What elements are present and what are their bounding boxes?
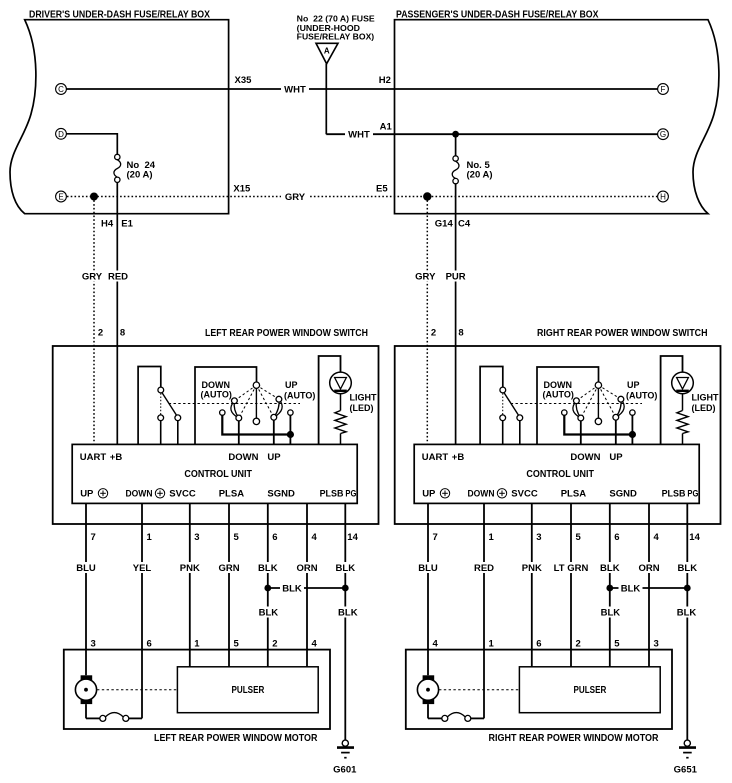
svg-text:6: 6 [272,532,277,543]
rocker common contact (left) [253,382,259,388]
svg-text:3: 3 [91,639,96,650]
switch S1 dotted throw (left) [160,393,162,414]
motor M (left) [81,675,93,683]
down-auto lever bottom contact (left) [236,415,242,421]
svg-text:F: F [661,85,666,94]
label GRN (wire PLSA, left) [219,562,240,573]
svg-text:+B: +B [110,452,123,463]
ground G601 symbol [337,746,354,749]
svg-text:3: 3 [194,532,199,543]
svg-text:PG: PG [687,489,698,500]
label WHT on A1 wire [345,129,373,140]
resistor (left) [335,411,346,434]
label BLK on link (left) [280,583,304,594]
rocker bus wire (right) [564,415,632,434]
label BLK below PG junction (right) [675,607,699,618]
switch S1 lever (right) [504,393,519,416]
wire X35/H2 WHT (C to F) [66,88,657,90]
wire UP BLU (left) [85,503,87,675]
rocker common contact (right) [595,382,601,388]
svg-text:1: 1 [489,639,495,650]
svg-text:GRY: GRY [285,192,306,203]
wire X15/E5 GRY dotted (E to H) [67,196,657,198]
svg-text:X35: X35 [235,75,253,86]
wire H4 GRY dotted (to UART pin 2, left) [93,197,95,445]
junction SGND/link (left) [264,585,271,592]
motor brush loop (left) [85,704,87,718]
svg-text:CONTROL UNIT: CONTROL UNIT [526,469,594,480]
switch S1 contact a (right) [500,415,506,421]
junction PG/link (left) [342,585,349,592]
svg-text:BLK: BLK [259,608,279,619]
up-auto lever arc (right) [616,399,624,417]
fuse No. 5 [455,134,457,156]
switch S1 common contact (left) [158,387,164,393]
junction bus (left) [287,431,294,438]
wire UP to control unit (left) [273,420,275,444]
control unit box (left) [72,444,357,503]
svg-text:G14: G14 [435,219,454,230]
label PNK (wire SVCC, right) [522,562,543,573]
svg-text:UP: UP [285,380,298,390]
svg-text:SGND: SGND [267,489,295,500]
svg-text:UP: UP [267,452,281,463]
dashed link motor to pulser (right) [439,689,519,691]
LED frame wire (left) [319,356,341,444]
ground link wire BLK (right) [610,587,688,589]
svg-text:BLK: BLK [600,563,620,574]
svg-text:WHT: WHT [348,130,370,141]
wire resistor to control unit (left) [340,434,342,445]
svg-text:LEFT REAR POWER WINDOW SWITCH: LEFT REAR POWER WINDOW SWITCH [205,328,368,339]
left rear power window switch box [53,346,379,524]
svg-text:LEFT REAR POWER WINDOW MOTOR: LEFT REAR POWER WINDOW MOTOR [154,733,318,744]
svg-text:LIGHT: LIGHT [350,393,377,403]
wire SGND BLK (right) [609,503,611,666]
svg-text:RIGHT REAR POWER WINDOW SWITCH: RIGHT REAR POWER WINDOW SWITCH [537,328,708,339]
svg-text:3: 3 [654,639,659,650]
svg-text:A1: A1 [380,122,393,133]
svg-text:DOWN: DOWN [544,380,573,390]
svg-text:G651: G651 [674,765,698,776]
label PUR (right drop) [442,271,469,282]
svg-text:WHT: WHT [284,85,306,96]
svg-text:BLK: BLK [258,563,278,574]
junction on E wire (driver H4 tap) [90,193,98,201]
svg-text:(LED): (LED) [350,403,374,413]
svg-text:GRY: GRY [415,272,436,283]
svg-text:1: 1 [489,532,495,543]
svg-text:7: 7 [433,532,438,543]
rocker dashed throw rays (left) [234,385,256,401]
connector F [658,84,669,95]
up-auto lever top contact (right) [618,396,624,402]
svg-text:E5: E5 [376,184,388,195]
ground link wire BLK (left) [268,587,346,589]
svg-text:7: 7 [91,532,96,543]
svg-text:UP: UP [80,489,94,500]
up contact terminal (right) [630,410,635,415]
switch S1 lever (left) [162,393,177,416]
passenger's under-dash fuse/relay box outline [395,20,719,214]
svg-text:ORN: ORN [638,563,659,574]
wire PG BLK (right) [686,503,688,740]
wire A1 WHT (to G) [326,133,657,135]
svg-text:X15: X15 [233,184,251,195]
fuse symbol A (triangle) [316,43,338,64]
wire UP BLU (right) [427,503,429,675]
switch S1 frame wire (right) [480,367,503,445]
label BLK (wire SGND, left) [258,562,279,573]
rocker frame wire (right) [537,367,599,444]
label RED (wire DOWN, right) [474,562,495,573]
svg-text:DOWN: DOWN [468,489,495,500]
svg-text:6: 6 [614,532,619,543]
svg-text:1: 1 [147,532,153,543]
motor brush loop (right) [427,704,429,718]
svg-text:6: 6 [536,639,541,650]
label GRY on X15 wire [281,191,309,202]
rocker neutral contact (left) [253,418,259,424]
right rear power window switch box [395,346,721,524]
svg-text:LT GRN: LT GRN [554,563,589,574]
wire PLSA LT GRN (right) [570,503,572,666]
svg-text:PG: PG [345,489,356,500]
junction SGND/link (right) [606,585,613,592]
wire PLSB ORN (left) [306,503,308,666]
svg-text:G: G [660,130,666,139]
brush contact b (right) [465,715,471,721]
svg-text:2: 2 [431,328,436,339]
label BLK (wire PG, left) [335,562,356,573]
svg-text:RED: RED [474,563,494,574]
svg-text:(AUTO): (AUTO) [201,390,232,400]
rocker neutral stem (right) [597,388,599,418]
svg-text:8: 8 [120,328,125,339]
up-auto lever bottom contact (left) [271,414,277,420]
svg-text:PLSA: PLSA [561,489,586,500]
svg-text:5: 5 [234,639,240,650]
down contact terminal (left) [220,410,225,415]
svg-text:DRIVER'S UNDER-DASH FUSE/RELAY: DRIVER'S UNDER-DASH FUSE/RELAY BOX [29,10,210,21]
label BLK below SGND junction (left) [256,607,280,618]
dashed link motor to pulser (left) [97,689,177,691]
svg-text:RED: RED [108,272,128,283]
up-auto lever top contact (left) [276,396,282,402]
label ORN (wire PLSB, left) [297,562,318,573]
wire C4 PUR (fuse No. 5 to +B pin 8, right) [455,184,457,445]
svg-text:5: 5 [234,532,240,543]
wire UP to control unit (right) [615,420,617,444]
svg-text:2: 2 [98,328,103,339]
svg-text:C: C [58,85,64,94]
label YEL (wire DOWN, left) [132,562,153,573]
switch S1 frame wire (left) [138,367,161,445]
down contact terminal (right) [562,410,567,415]
svg-text:BLK: BLK [621,584,641,595]
LED D1 (right) [672,372,694,394]
wire from fuse A down [325,64,327,134]
LED D1 (left) [330,372,352,394]
svg-text:BLU: BLU [76,563,96,574]
label BLK on link (right) [619,583,643,594]
svg-text:1: 1 [194,639,200,650]
down-auto lever top contact (left) [232,398,238,404]
svg-text:BLU: BLU [418,563,438,574]
svg-text:PUR: PUR [446,272,466,283]
resistor (right) [677,411,688,434]
label BLU (wire UP, right) [418,562,439,573]
wire DOWN RED (right) [483,503,485,718]
label BLK below PG junction (left) [336,607,360,618]
svg-text:YEL: YEL [133,563,152,574]
svg-text:BLK: BLK [282,584,302,595]
svg-text:4: 4 [312,639,318,650]
label BLU (wire UP, left) [76,562,97,573]
svg-text:PNK: PNK [522,563,542,574]
left rear power window motor box [64,650,330,729]
wire S1 contact b to control unit (right) [519,421,521,445]
down-auto lever arc (right) [573,401,581,418]
svg-text:SGND: SGND [609,489,637,500]
svg-text:H: H [660,193,666,202]
brush contact b (left) [123,715,129,721]
junction PG/link (right) [684,585,691,592]
svg-text:UP: UP [609,452,623,463]
svg-text:3: 3 [536,532,541,543]
label PNK (wire SVCC, left) [180,562,201,573]
mechanical link dashed (left) [169,403,300,405]
brush arc (left) [105,713,123,717]
svg-text:+B: +B [452,452,465,463]
wire DOWN to control unit (right) [580,421,582,445]
svg-text:UP: UP [422,489,436,500]
switch S1 common contact (right) [500,387,506,393]
svg-text:BLK: BLK [336,563,356,574]
svg-text:CONTROL UNIT: CONTROL UNIT [184,469,252,480]
svg-text:SVCC: SVCC [169,489,196,500]
wire S1 contact b to control unit (left) [177,421,179,445]
svg-text:PULSER: PULSER [232,685,265,696]
rocker neutral contact (right) [595,418,601,424]
svg-text:FUSE/RELAY BOX): FUSE/RELAY BOX) [297,32,375,42]
connector C [56,84,67,95]
wire SGND BLK (left) [267,503,269,666]
svg-text:D: D [58,130,64,139]
svg-text:(AUTO): (AUTO) [626,391,657,401]
svg-text:14: 14 [347,532,358,543]
wire DOWN YEL (left) [141,503,143,718]
fuse No 24 [115,154,120,159]
svg-text:(AUTO): (AUTO) [284,391,315,401]
wire from D to fuse No 24 [66,133,117,135]
svg-text:UART: UART [80,452,107,463]
svg-text:DOWN: DOWN [202,380,231,390]
junction on H wire (passenger G14 tap) [423,192,431,200]
driver's under-dash fuse/relay box outline [10,20,229,214]
up-auto lever arc (left) [274,399,282,417]
right rear power window motor box [406,650,672,729]
wire PLSB ORN (right) [648,503,650,666]
svg-text:H4: H4 [101,219,114,230]
svg-text:(AUTO): (AUTO) [543,390,574,400]
label BLK (wire PG, right) [677,562,698,573]
svg-text:PASSENGER'S UNDER-DASH FUSE/RE: PASSENGER'S UNDER-DASH FUSE/RELAY BOX [396,10,599,21]
svg-text:LIGHT: LIGHT [692,393,719,403]
svg-text:UART: UART [422,452,449,463]
switch S1 contact b (right) [517,415,523,421]
svg-text:No 22 (70 A) FUSE: No 22 (70 A) FUSE [297,14,375,24]
svg-text:14: 14 [689,532,700,543]
svg-text:(20 A): (20 A) [467,170,493,181]
wire LED to resistor (right) [682,394,684,411]
switch S1 contact b (left) [175,415,181,421]
rocker dashed throw rays (right) [576,385,598,401]
brush contact a (left) [100,715,106,721]
label BLK below SGND junction (right) [598,607,622,618]
ground G651 symbol [679,746,696,749]
svg-text:2: 2 [272,639,277,650]
up-auto lever bottom contact (right) [613,414,619,420]
svg-text:5: 5 [576,532,582,543]
svg-text:E1: E1 [121,219,133,230]
svg-text:5: 5 [614,639,620,650]
label ORN (wire PLSB, right) [639,562,660,573]
wire E1 RED (fuse No 24 to +B pin 8, left) [116,183,118,445]
svg-text:G601: G601 [333,765,357,776]
svg-text:4: 4 [433,639,439,650]
rocker bus wire (left) [222,415,290,434]
junction bus (right) [629,431,636,438]
svg-text:4: 4 [654,532,660,543]
wire bus to control unit (right) [631,415,633,444]
down-auto lever bottom contact (right) [578,415,584,421]
svg-text:PLSA: PLSA [219,489,244,500]
svg-text:6: 6 [147,639,152,650]
svg-text:E: E [58,193,63,202]
wire SVCC PNK (left) [189,503,191,666]
svg-text:PLSB: PLSB [662,489,686,500]
svg-text:(20 A): (20 A) [127,170,153,181]
svg-text:DOWN: DOWN [570,452,600,463]
svg-text:PLSB: PLSB [320,489,344,500]
ground G601 terminal circle [342,740,348,746]
connector H [658,191,669,202]
wire SVCC PNK (right) [531,503,533,666]
switch S1 dotted throw (right) [502,393,504,414]
wire G14 GRY dotted (to UART pin 2, right) [426,197,428,445]
svg-text:PNK: PNK [180,563,200,574]
wire DOWN to control unit (left) [238,421,240,445]
wire PLSA GRN (left) [228,503,230,666]
wire bus to control unit (left) [289,415,291,444]
rocker frame wire (left) [195,367,257,444]
motor M (right) [423,675,435,683]
svg-text:SVCC: SVCC [511,489,538,500]
label GRY (right drop) [412,271,439,282]
wire PG BLK (left) [344,503,346,740]
label LT GRN (wire PLSA, right) [551,562,590,573]
svg-text:GRY: GRY [82,272,103,283]
svg-text:A: A [324,47,330,56]
svg-text:(LED): (LED) [692,403,716,413]
junction on A1 wire (fuse No.5 tap) [452,131,459,138]
switch S1 contact a (left) [158,415,164,421]
pulser box (left) [177,667,318,713]
svg-text:DOWN: DOWN [228,452,258,463]
down-auto lever arc (left) [231,401,239,418]
up contact terminal (left) [288,410,293,415]
svg-text:4: 4 [312,532,318,543]
label WHT on X35 wire [281,84,309,95]
svg-text:2: 2 [576,639,581,650]
svg-text:GRN: GRN [218,563,239,574]
svg-text:H2: H2 [379,75,391,86]
connector E [56,191,67,202]
svg-text:ORN: ORN [296,563,317,574]
wire S1 contact a to control unit (left) [160,421,162,445]
brush arc (right) [447,713,465,717]
label GRY (left drop) [79,271,106,282]
down-auto lever top contact (right) [574,398,580,404]
connector G [658,129,669,140]
label RED (left drop) [105,271,132,282]
rocker neutral stem (left) [255,388,257,418]
pulser box (right) [519,667,660,713]
svg-text:BLK: BLK [338,608,358,619]
connector D [56,128,67,139]
brush contact a (right) [442,715,448,721]
svg-text:UP: UP [627,380,640,390]
svg-text:BLK: BLK [677,608,697,619]
wire S1 contact a to control unit (right) [502,421,504,445]
wire LED to resistor (left) [340,394,342,411]
svg-text:BLK: BLK [678,563,698,574]
control unit box (right) [414,444,699,503]
svg-text:PULSER: PULSER [574,685,607,696]
svg-text:BLK: BLK [601,608,621,619]
svg-text:8: 8 [458,328,463,339]
mechanical link dashed (right) [511,403,642,405]
label BLK (wire SGND, right) [600,562,621,573]
LED frame wire (right) [661,356,683,444]
wire resistor to control unit (right) [682,434,684,445]
svg-text:RIGHT REAR POWER WINDOW MOTOR: RIGHT REAR POWER WINDOW MOTOR [489,733,660,744]
svg-text:DOWN: DOWN [126,489,153,500]
ground G651 terminal circle [684,740,690,746]
svg-text:C4: C4 [458,219,471,230]
